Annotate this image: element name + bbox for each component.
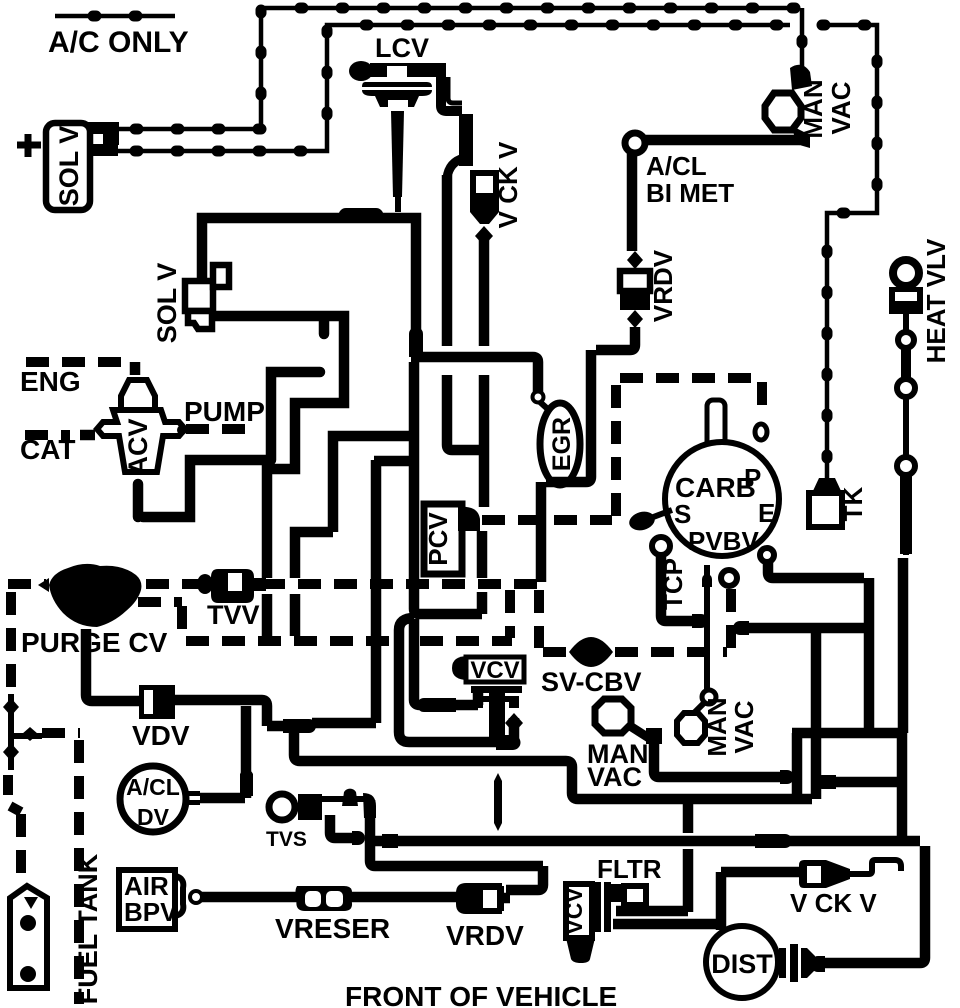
svg-text:FRONT OF VEHICLE: FRONT OF VEHICLE: [345, 981, 617, 1008]
svg-text:VCV: VCV: [470, 657, 519, 684]
svg-text:FLTR: FLTR: [597, 854, 662, 884]
svg-text:A/CL: A/CL: [646, 151, 707, 181]
svg-text:SV-CBV: SV-CBV: [541, 667, 642, 697]
svg-text:VRDV: VRDV: [648, 249, 678, 322]
svg-text:DIST: DIST: [711, 949, 773, 979]
svg-text:ACV: ACV: [123, 418, 153, 475]
svg-text:BPV: BPV: [124, 897, 178, 927]
svg-text:PUMP: PUMP: [184, 396, 265, 427]
svg-text:FUEL TANK: FUEL TANK: [73, 853, 103, 1004]
svg-text:VRESER: VRESER: [275, 913, 390, 944]
svg-text:HEAT VLV: HEAT VLV: [921, 238, 951, 363]
svg-text:PVBV: PVBV: [688, 526, 759, 556]
svg-text:VDV: VDV: [132, 720, 190, 751]
svg-text:PCV: PCV: [423, 512, 453, 566]
svg-text:ENG: ENG: [20, 366, 81, 397]
svg-text:VAC: VAC: [729, 700, 759, 753]
svg-text:LCV: LCV: [375, 33, 429, 63]
svg-text:PURGE CV: PURGE CV: [21, 627, 168, 658]
svg-text:A/CL: A/CL: [126, 774, 180, 800]
svg-text:E: E: [758, 498, 775, 528]
svg-text:MAN: MAN: [702, 697, 732, 756]
svg-text:VRDV: VRDV: [446, 920, 524, 951]
svg-text:TVS: TVS: [266, 828, 307, 851]
svg-text:V CK V: V CK V: [493, 141, 523, 228]
svg-text:DV: DV: [137, 804, 170, 830]
svg-text:TCP: TCP: [658, 558, 688, 610]
svg-text:VCV: VCV: [561, 887, 587, 935]
svg-text:TVV: TVV: [207, 600, 260, 630]
svg-text:MAN: MAN: [798, 79, 828, 138]
svg-text:BI MET: BI MET: [646, 178, 734, 208]
svg-text:V CK V: V CK V: [790, 888, 877, 918]
svg-text:S: S: [674, 499, 691, 529]
svg-text:TK: TK: [838, 486, 868, 521]
svg-text:P: P: [744, 463, 761, 493]
svg-text:SOL V: SOL V: [152, 263, 182, 344]
svg-text:VAC: VAC: [826, 81, 856, 134]
svg-text:SOL V: SOL V: [54, 126, 84, 207]
svg-text:EGR: EGR: [548, 417, 576, 471]
svg-text:VAC: VAC: [587, 762, 642, 792]
svg-text:A/C ONLY: A/C ONLY: [48, 26, 189, 59]
svg-text:CAT: CAT: [20, 434, 75, 465]
